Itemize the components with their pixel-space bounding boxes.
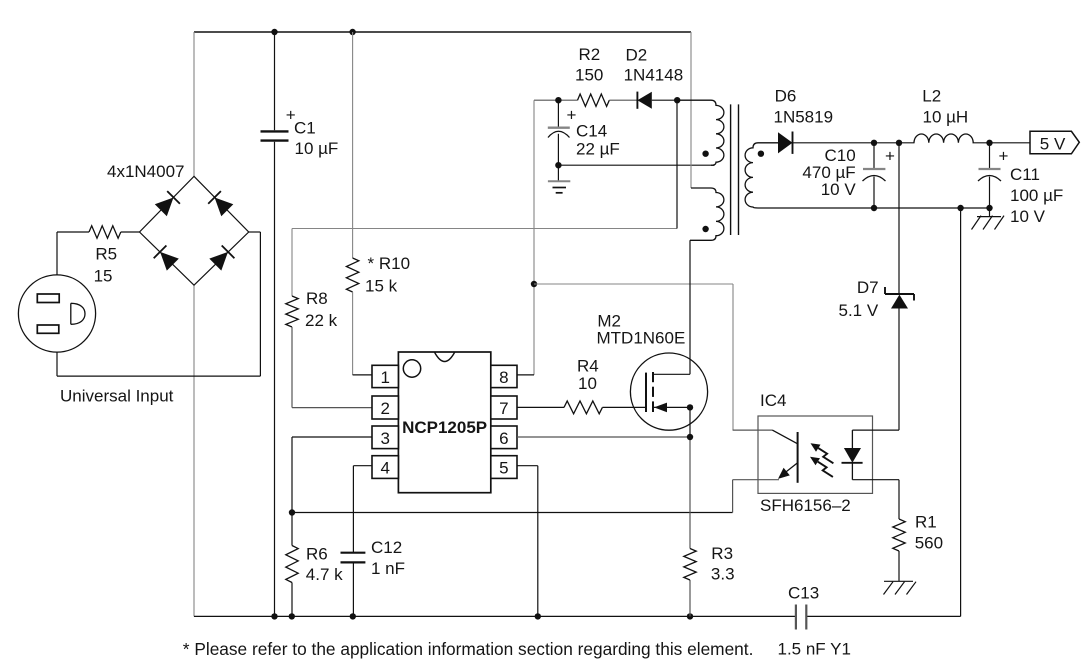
svg-text:1N5819: 1N5819: [774, 107, 834, 126]
svg-text:+: +: [885, 147, 895, 166]
svg-text:IC4: IC4: [760, 391, 786, 410]
svg-text:L2: L2: [922, 86, 941, 105]
svg-text:MTD1N60E: MTD1N60E: [597, 328, 686, 347]
svg-text:* R10: * R10: [368, 254, 411, 273]
svg-text:22 k: 22 k: [305, 311, 338, 330]
svg-text:3: 3: [380, 429, 389, 448]
svg-text:+: +: [999, 147, 1009, 166]
svg-text:10 V: 10 V: [821, 180, 857, 199]
svg-text:SFH6156–2: SFH6156–2: [760, 496, 851, 515]
svg-text:100 µF: 100 µF: [1010, 186, 1063, 205]
svg-text:2: 2: [380, 399, 389, 418]
svg-text:C1: C1: [294, 119, 316, 138]
svg-text:5 V: 5 V: [1040, 134, 1066, 153]
svg-text:10 µF: 10 µF: [295, 139, 339, 158]
svg-text:4x1N4007: 4x1N4007: [107, 162, 185, 181]
svg-text:Universal Input: Universal Input: [60, 387, 174, 406]
svg-text:10: 10: [578, 374, 597, 393]
svg-text:D2: D2: [626, 45, 648, 64]
svg-text:1N4148: 1N4148: [624, 66, 684, 85]
svg-text:NCP1205P: NCP1205P: [402, 418, 487, 437]
svg-text:1 nF: 1 nF: [371, 559, 405, 578]
svg-text:R3: R3: [711, 544, 733, 563]
svg-text:R4: R4: [577, 357, 599, 376]
svg-text:R1: R1: [915, 513, 937, 532]
svg-text:150: 150: [575, 65, 603, 84]
svg-text:R5: R5: [95, 245, 117, 264]
svg-text:7: 7: [499, 399, 508, 418]
svg-text:R8: R8: [306, 289, 328, 308]
svg-text:6: 6: [499, 429, 508, 448]
svg-text:1.5 nF Y1: 1.5 nF Y1: [778, 640, 851, 659]
svg-text:5: 5: [499, 459, 508, 478]
svg-text:* Please refer to the applicat: * Please refer to the application inform…: [183, 639, 754, 659]
svg-text:C13: C13: [788, 584, 819, 603]
svg-text:10 µH: 10 µH: [923, 107, 969, 126]
svg-text:3.3: 3.3: [711, 565, 735, 584]
svg-text:22 µF: 22 µF: [576, 140, 620, 159]
svg-text:R2: R2: [579, 45, 601, 64]
svg-text:C14: C14: [576, 122, 607, 141]
svg-text:8: 8: [499, 368, 508, 387]
svg-text:4.7 k: 4.7 k: [306, 565, 343, 584]
svg-text:15: 15: [94, 266, 113, 285]
svg-text:1: 1: [380, 368, 389, 387]
svg-text:C12: C12: [371, 538, 402, 557]
svg-text:560: 560: [915, 533, 943, 552]
svg-text:4: 4: [380, 459, 389, 478]
svg-text:10 V: 10 V: [1010, 207, 1046, 226]
svg-text:R6: R6: [306, 545, 328, 564]
svg-text:C11: C11: [1010, 165, 1040, 184]
svg-text:D6: D6: [775, 86, 797, 105]
svg-text:15 k: 15 k: [365, 277, 398, 296]
svg-text:5.1 V: 5.1 V: [838, 301, 878, 320]
svg-text:+: +: [567, 106, 577, 125]
svg-text:D7: D7: [857, 278, 879, 297]
